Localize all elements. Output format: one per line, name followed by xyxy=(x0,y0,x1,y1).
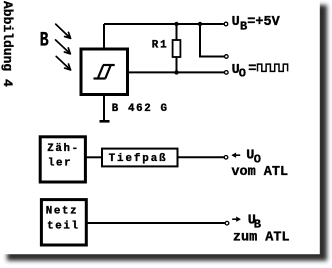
svg-text:Netz: Netz xyxy=(46,206,79,218)
resistor R1 xyxy=(176,24,178,40)
junction dot on +5V rail at stub xyxy=(198,22,202,26)
label Uo (mid) xyxy=(246,148,261,166)
hysteresis symbol xyxy=(94,65,115,79)
opto receiver B462G (box) xyxy=(81,49,128,95)
Netzteil box xyxy=(41,200,86,245)
terminal circle middle stub xyxy=(225,55,229,59)
right arrow glyph xyxy=(232,217,241,222)
svg-text:Tiefpaß: Tiefpaß xyxy=(109,153,168,165)
wire: stub from +5V rail to middle terminal xyxy=(200,24,224,57)
junction dot on Uo rail at R1 xyxy=(174,70,178,74)
svg-text:B: B xyxy=(40,30,49,53)
square wave glyph xyxy=(258,64,288,71)
svg-text:Zäh-: Zäh- xyxy=(47,143,80,155)
label Uo= xyxy=(232,62,257,81)
wire: Netzteil to UB terminal xyxy=(86,222,225,224)
terminal circle UB out xyxy=(225,221,229,225)
svg-text:=+5V: =+5V xyxy=(247,15,280,30)
svg-text:O: O xyxy=(254,152,261,166)
junction dot on +5V rail at R1 xyxy=(174,22,178,26)
svg-text:U: U xyxy=(232,15,240,30)
svg-text:=: = xyxy=(248,62,256,77)
wire: box top to +5V rail xyxy=(103,24,105,49)
svg-text:B 462 G: B 462 G xyxy=(112,103,169,115)
terminal circle Uo xyxy=(225,71,229,75)
terminal circle UB xyxy=(224,22,228,26)
wire: box output to Uo rail xyxy=(128,71,225,73)
Zaehler box xyxy=(40,137,85,182)
left arrow glyph xyxy=(231,153,240,158)
Tiefpass box xyxy=(102,149,178,167)
wire: box bottom to ground xyxy=(103,95,105,121)
wire: Zaehler to Tiefpass xyxy=(86,156,101,158)
svg-text:zum ATL: zum ATL xyxy=(233,230,290,245)
terminal circle Uo in xyxy=(224,156,228,160)
label UB=+5V xyxy=(232,15,281,34)
light arrow 1 xyxy=(56,24,71,38)
svg-text:Abbildung 4: Abbildung 4 xyxy=(0,1,15,87)
svg-text:vom ATL: vom ATL xyxy=(231,165,288,180)
wire: +5V rail xyxy=(104,23,224,25)
label UB (bottom) xyxy=(248,213,261,231)
svg-text:ler: ler xyxy=(48,157,72,169)
ground xyxy=(100,120,110,123)
svg-text:B: B xyxy=(240,20,247,34)
svg-text:O: O xyxy=(239,67,246,81)
svg-text:R1: R1 xyxy=(152,40,169,52)
svg-text:teil: teil xyxy=(47,220,80,232)
light arrow 3 xyxy=(56,56,70,70)
light arrow 2 xyxy=(56,40,71,54)
wire: Tiefpass to Uo terminal xyxy=(178,156,225,158)
